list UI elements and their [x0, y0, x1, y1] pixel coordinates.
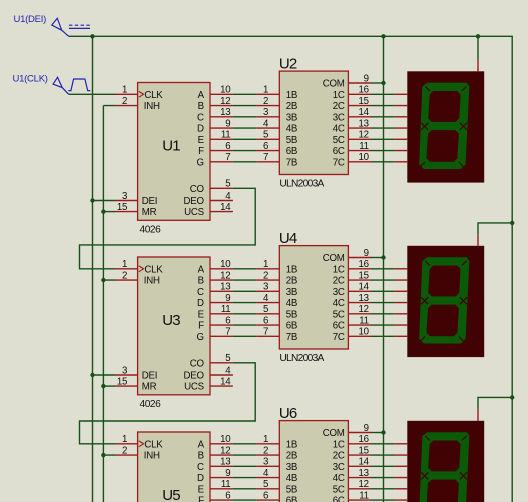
wires U5 A-G -> U6 1B-7B: [233, 443, 257, 445]
svg-text:A: A: [198, 90, 205, 101]
svg-text:5B: 5B: [286, 135, 297, 146]
7-segment display DS1: [407, 71, 484, 182]
svg-text:U5: U5: [162, 487, 180, 502]
svg-text:DEO: DEO: [184, 196, 205, 207]
svg-text:F: F: [198, 321, 204, 332]
driver U4 (ULN2003A): [279, 246, 348, 349]
svg-text:3B: 3B: [286, 462, 297, 473]
wire cascade U3.CO -> U5.CLK: [80, 363, 256, 444]
wire U3.INH to INH/MR bus: [103, 279, 115, 281]
counter U3 (4026): [138, 257, 210, 395]
svg-text:DEI: DEI: [142, 196, 157, 207]
U1 pin stubs: [115, 93, 138, 95]
wire DEI bus (vertical): [92, 36, 94, 502]
svg-text:U4: U4: [279, 230, 297, 247]
wire U3.MR to INH/MR bus: [103, 385, 115, 387]
U2 pin stubs: [257, 93, 280, 95]
wire DEI bus -> U3.DEI: [93, 374, 116, 376]
svg-text:DEI: DEI: [142, 371, 157, 382]
svg-text:CLK: CLK: [144, 439, 163, 450]
svg-text:3C: 3C: [333, 462, 345, 473]
svg-text:6C: 6C: [333, 146, 345, 157]
svg-text:B: B: [198, 276, 204, 287]
svg-text:C: C: [197, 287, 204, 298]
svg-text:4B: 4B: [286, 124, 297, 135]
svg-text:1B: 1B: [286, 90, 297, 101]
junction INH/MR bus at U3.INH: [101, 278, 105, 282]
svg-text:B: B: [198, 101, 204, 112]
svg-text:6B: 6B: [286, 146, 297, 157]
svg-text:U6: U6: [279, 405, 297, 422]
svg-text:1C: 1C: [333, 439, 345, 450]
dc generator icon (DEI): [69, 24, 90, 26]
svg-text:U2: U2: [279, 55, 297, 72]
svg-text:5C: 5C: [333, 135, 345, 146]
svg-text:5B: 5B: [286, 309, 297, 320]
wires U6 1C-7C -> display DS3: [371, 443, 395, 445]
junction rail/DS3-common: [510, 395, 514, 399]
wire U4.COM to COM bus: [371, 257, 384, 259]
svg-text:3B: 3B: [286, 287, 297, 298]
svg-text:A: A: [198, 264, 205, 275]
wire U2.COM to COM bus: [371, 82, 384, 84]
svg-text:U1(CLK): U1(CLK): [13, 74, 48, 85]
svg-text:6B: 6B: [286, 496, 297, 502]
svg-text:DEO: DEO: [184, 371, 205, 382]
DS3 segments: [419, 432, 469, 502]
wires U2 1C-7C -> display DS1: [371, 93, 395, 95]
DS3 segment pin stubs: [395, 443, 408, 445]
counter U1 (4026): [138, 83, 210, 221]
svg-text:D: D: [197, 298, 204, 309]
svg-text:6B: 6B: [286, 321, 297, 332]
junction INH/MR bus at U5.INH: [101, 453, 105, 457]
svg-text:2B: 2B: [286, 276, 297, 287]
wire U5.INH to INH/MR bus: [103, 454, 115, 456]
svg-text:INH: INH: [144, 451, 160, 462]
svg-text:2B: 2B: [286, 101, 297, 112]
U3 clock symbol: [139, 266, 144, 272]
svg-text:4C: 4C: [333, 473, 345, 484]
svg-text:5C: 5C: [333, 484, 345, 495]
junction DEI bus at U3.DEI: [90, 373, 94, 377]
wires U1 A-G -> U2 1B-7B: [233, 93, 257, 95]
DS1 segments: [419, 83, 469, 169]
junction INH/MR bus at U1.MR: [101, 209, 105, 213]
svg-text:INH: INH: [144, 276, 160, 287]
wire U1.MR to INH/MR bus: [103, 211, 115, 213]
svg-text:G: G: [197, 157, 204, 168]
junction COM bus at U4.COM: [381, 255, 385, 259]
junction COM bus at U2.COM: [381, 81, 385, 85]
svg-text:U1: U1: [162, 137, 180, 154]
svg-text:D: D: [197, 124, 204, 135]
7-segment display DS2: [407, 246, 484, 357]
svg-text:4C: 4C: [333, 298, 345, 309]
svg-text:F: F: [198, 496, 204, 502]
svg-text:E: E: [198, 484, 205, 495]
svg-text:2B: 2B: [286, 451, 297, 462]
svg-text:4B: 4B: [286, 473, 297, 484]
svg-text:CLK: CLK: [144, 90, 163, 101]
svg-text:1B: 1B: [286, 439, 297, 450]
junction rail/DS1-common: [476, 34, 480, 38]
svg-text:5B: 5B: [286, 484, 297, 495]
svg-text:3C: 3C: [333, 112, 345, 123]
counter U5 (4026): [138, 432, 210, 502]
U5 pin stubs: [115, 443, 138, 445]
svg-text:1C: 1C: [333, 264, 345, 275]
svg-text:D: D: [197, 473, 204, 484]
wire DS1 common anode to rail: [477, 36, 479, 60]
svg-text:CO: CO: [190, 184, 205, 195]
wire power rail (top horizontal + right vertical): [69, 36, 513, 502]
wire DS3 common anode to rail: [478, 397, 512, 409]
wire CLK generator -> U1.CLK: [69, 93, 115, 95]
svg-text:E: E: [198, 135, 205, 146]
junction rail/DS2-common: [510, 221, 514, 225]
svg-text:C: C: [197, 462, 204, 473]
svg-text:6C: 6C: [333, 321, 345, 332]
wires U3 A-G -> U4 1B-7B: [233, 268, 257, 270]
svg-text:MR: MR: [142, 207, 157, 218]
wire U1.INH to INH/MR bus: [103, 105, 115, 107]
svg-text:7B: 7B: [286, 157, 297, 168]
svg-text:CLK: CLK: [144, 264, 163, 275]
svg-text:2C: 2C: [333, 101, 345, 112]
U6 pin stubs: [257, 443, 280, 445]
svg-text:U1(DEI): U1(DEI): [14, 14, 47, 25]
svg-text:COM: COM: [323, 428, 345, 439]
driver U6 (ULN2003A): [279, 421, 348, 502]
junction DEI bus at U1.DEI: [90, 198, 94, 202]
U1 clock symbol: [139, 91, 144, 97]
wire DEI bus -> U1.DEI: [93, 200, 116, 202]
svg-text:1C: 1C: [333, 90, 345, 101]
wires U4 1C-7C -> display DS2: [371, 268, 395, 270]
svg-text:INH: INH: [144, 101, 160, 112]
junction COM bus at U6.COM: [381, 430, 385, 434]
svg-text:CO: CO: [190, 358, 205, 369]
voltage probe U1(CLK): [53, 77, 69, 94]
junction rail/DEI-bus: [90, 34, 94, 38]
svg-text:4026: 4026: [140, 224, 162, 235]
svg-text:MR: MR: [142, 382, 157, 393]
svg-text:C: C: [197, 112, 204, 123]
wire DS2 common anode to rail: [478, 223, 512, 235]
7-segment display DS3: [407, 421, 484, 502]
svg-text:F: F: [198, 146, 204, 157]
wire cascade U1.CO -> U3.CLK: [80, 188, 256, 268]
svg-text:7C: 7C: [333, 332, 345, 343]
svg-text:6C: 6C: [333, 496, 345, 502]
svg-text:3C: 3C: [333, 287, 345, 298]
svg-text:COM: COM: [323, 253, 345, 264]
wire U6.COM to COM bus: [371, 432, 384, 434]
U3 pin stubs: [115, 268, 138, 270]
svg-text:3B: 3B: [286, 112, 297, 123]
svg-text:2C: 2C: [333, 451, 345, 462]
wire INH/MR bus (vertical): [102, 106, 104, 502]
svg-text:UCS: UCS: [184, 207, 204, 218]
voltage probe U1(DEI): [52, 18, 69, 36]
junction INH/MR bus at U3.MR: [101, 384, 105, 388]
wire COM bus (vertical): [383, 36, 385, 502]
svg-text:UCS: UCS: [184, 382, 204, 393]
svg-text:COM: COM: [323, 79, 345, 90]
svg-text:E: E: [198, 309, 205, 320]
svg-text:7C: 7C: [333, 157, 345, 168]
U4 pin stubs: [257, 268, 280, 270]
svg-text:U3: U3: [162, 312, 180, 329]
svg-text:4026: 4026: [140, 399, 162, 410]
DS1 segment pin stubs: [395, 93, 408, 95]
svg-text:G: G: [197, 332, 204, 343]
U5 clock symbol: [139, 441, 144, 447]
svg-text:7B: 7B: [286, 332, 297, 343]
junction rail/COM-bus: [381, 34, 385, 38]
svg-text:5C: 5C: [333, 309, 345, 320]
svg-text:ULN2003A: ULN2003A: [279, 353, 324, 364]
svg-text:4C: 4C: [333, 124, 345, 135]
DS2 segments: [419, 257, 469, 343]
DS2 segment pin stubs: [395, 268, 408, 270]
svg-text:1B: 1B: [286, 264, 297, 275]
pulse generator icon (CLK): [68, 79, 90, 91]
svg-text:B: B: [198, 451, 204, 462]
driver U2 (ULN2003A): [279, 71, 348, 174]
svg-text:A: A: [198, 439, 205, 450]
svg-text:2C: 2C: [333, 276, 345, 287]
svg-text:4B: 4B: [286, 298, 297, 309]
svg-text:ULN2003A: ULN2003A: [279, 178, 324, 189]
